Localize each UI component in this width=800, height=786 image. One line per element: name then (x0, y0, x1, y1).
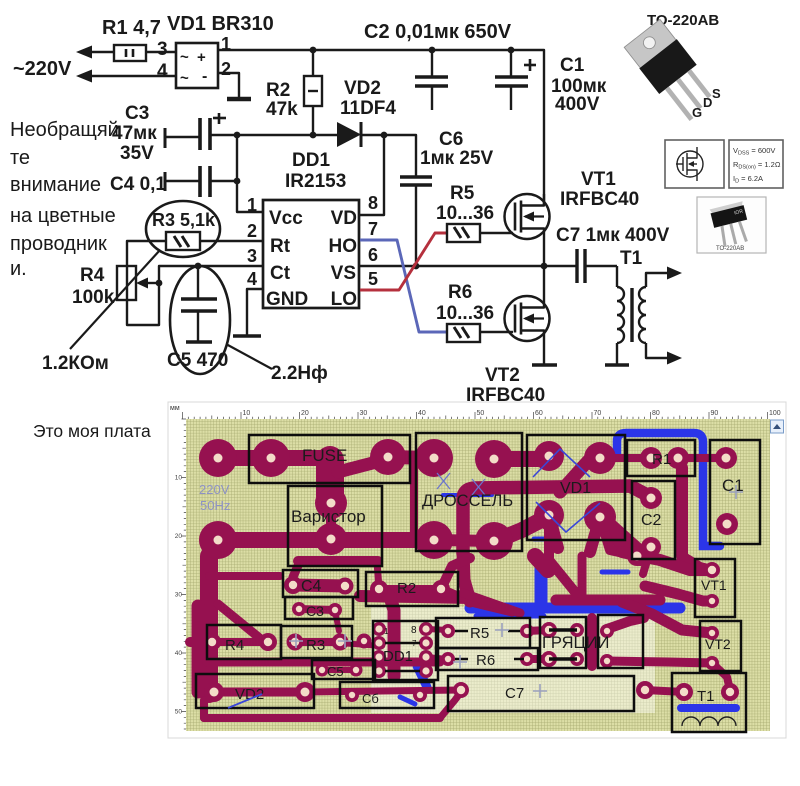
svg-text:R6: R6 (476, 652, 495, 669)
wire trace C5 pads (322, 667, 356, 673)
wire R5 to VT1 gate (480, 232, 513, 234)
svg-text:1: 1 (384, 627, 389, 636)
pad fuse 1 (252, 439, 290, 477)
wire blue left bits (193, 626, 200, 640)
svg-text:~: ~ (180, 49, 189, 66)
pad C2 a (640, 487, 662, 509)
svg-text:20: 20 (175, 533, 183, 540)
wire trace VD1 bottom-right mass (600, 520, 640, 556)
ruler top (183, 412, 768, 419)
ground pin4 (233, 334, 261, 338)
pad R3 b (332, 634, 349, 651)
pad R3 c (357, 634, 372, 649)
silk blue VD1 chevrons (533, 449, 590, 477)
svg-text:47k: 47k (266, 99, 298, 120)
wire trace to VT2 lower (607, 661, 712, 663)
svg-text:C3: C3 (125, 103, 149, 124)
wire trace VD1 bottom left down (549, 515, 575, 592)
component box C2 pcb (632, 481, 675, 559)
wire trace choke to VD1 top (495, 451, 548, 467)
svg-text:3: 3 (157, 39, 168, 60)
wire trace between relay boxes (587, 618, 597, 666)
svg-text:D: D (703, 95, 712, 110)
svg-text:C6: C6 (439, 129, 463, 150)
wire trace R5 leads (426, 629, 448, 630)
svg-text:-: - (202, 68, 207, 85)
scrollbar button (771, 420, 784, 433)
pad VD1 2 (584, 442, 616, 474)
op-amp/IC DD1 IR2153 (263, 200, 359, 308)
component box R3 pcb (281, 626, 352, 658)
pad varistor top (315, 487, 347, 519)
wire blue short bar (602, 570, 628, 575)
pad choke tr (475, 440, 513, 478)
pad C7 a (453, 682, 469, 698)
svg-text:7: 7 (412, 639, 417, 648)
svg-text:C7 1мк 400V: C7 1мк 400V (556, 225, 670, 246)
svg-text:70: 70 (594, 410, 602, 417)
wire blue DD1 bits (417, 666, 427, 687)
svg-text:7: 7 (368, 219, 378, 239)
pad relay 2 (570, 623, 584, 637)
wire trace VD1 to R1 (600, 454, 651, 462)
node R2 bottom (310, 132, 317, 139)
wire trace VT2 to T1 (712, 663, 730, 690)
svg-text:Сб: Сб (362, 691, 379, 706)
svg-text:мм: мм (170, 405, 180, 412)
ellipse callout around C5 (170, 266, 230, 374)
svg-text:проводник: проводник (10, 233, 107, 255)
svg-text:1.2КОм: 1.2КОм (42, 353, 109, 374)
svg-text:S: S (712, 86, 721, 101)
svg-text:20: 20 (301, 410, 309, 417)
wire trace fuse row (218, 450, 322, 466)
wire VB node (384, 135, 416, 176)
svg-text:R6: R6 (448, 282, 472, 303)
capacitor C3 (164, 128, 167, 148)
svg-text:R5: R5 (450, 183, 475, 204)
resistor R5 (447, 224, 480, 242)
svg-text:11DF4: 11DF4 (340, 98, 396, 119)
svg-text:IRFBC40: IRFBC40 (560, 189, 639, 210)
component box C4 pcb (283, 570, 358, 597)
transformer T1 secondary (639, 287, 646, 343)
node C6/VS (413, 263, 420, 270)
pad VD1 3 (534, 500, 564, 530)
pad VD1 1 (534, 441, 564, 471)
PCB grid background (186, 419, 770, 731)
wire trace R2 (379, 585, 441, 593)
transformer T1 primary (616, 266, 618, 287)
pad C4 b (337, 578, 354, 595)
pad VT1 b (705, 594, 719, 608)
pad C2 b (641, 537, 661, 557)
svg-text:C7: C7 (505, 685, 524, 702)
svg-text:DD1: DD1 (292, 150, 330, 171)
svg-text:40: 40 (418, 410, 426, 417)
svg-text:30: 30 (175, 592, 183, 599)
svg-text:50: 50 (477, 410, 485, 417)
wire top rail (+310V) (218, 50, 544, 205)
node VD2 cathode (381, 132, 388, 139)
svg-text:R4: R4 (225, 637, 244, 654)
component box T1 pcb (672, 673, 746, 732)
input arrow top (76, 46, 92, 59)
svg-text:T1: T1 (620, 248, 643, 269)
pad C1 a (715, 447, 737, 469)
selection highlight region (371, 607, 655, 713)
wire R3 left / R4 branch (127, 241, 263, 325)
wire trace to VT2 (622, 602, 712, 633)
wire trace VD1 diagonal (560, 461, 588, 492)
svg-text:VD2: VD2 (344, 78, 381, 99)
ground (227, 97, 251, 102)
wire trace R1 to C1 (678, 454, 726, 462)
svg-text:8: 8 (368, 193, 378, 213)
svg-text:R2: R2 (266, 80, 290, 101)
pad R1 a (640, 447, 662, 469)
svg-text:VD1: VD1 (560, 480, 591, 497)
wire trace C7 to T1 (645, 690, 684, 692)
component box VT2 pcb (700, 621, 741, 671)
ground T1 primary (605, 363, 629, 367)
svg-text:1: 1 (247, 195, 257, 215)
capacitor C1 (510, 50, 512, 76)
wire bridge pin2 to ground (218, 73, 239, 97)
resistor R3 (166, 232, 200, 250)
svg-text:Необращяй: Необращяй (10, 119, 119, 141)
capacitor C7 (575, 249, 578, 283)
component box C6 pcb (340, 682, 434, 708)
T1 coil silk (682, 717, 736, 726)
transformer T1 core (630, 288, 633, 342)
wire VT2 source down (543, 341, 545, 365)
svg-text:5: 5 (368, 269, 378, 289)
component box varistor (288, 486, 382, 566)
pad C5 b (350, 664, 363, 677)
svg-text:400V: 400V (555, 94, 600, 115)
svg-text:R2: R2 (397, 580, 416, 597)
wire VT1 source to VS (543, 239, 545, 266)
wire R3 to pin2 Rt (200, 240, 263, 242)
svg-text:3: 3 (247, 246, 257, 266)
wire R6 to VT2 gate (480, 331, 513, 333)
svg-text:10...36: 10...36 (436, 203, 494, 224)
svg-text:220V: 220V (199, 482, 230, 497)
svg-text:VT2: VT2 (485, 365, 520, 386)
svg-text:10: 10 (243, 410, 251, 417)
svg-text:8: 8 (411, 625, 417, 636)
pad fuse 2 (370, 439, 406, 475)
svg-text:~220V: ~220V (13, 58, 72, 80)
silk black stubs R5 R6 (455, 630, 468, 633)
wire trace choke mid vertical + cross horizontal (463, 486, 651, 553)
svg-text:100: 100 (769, 410, 781, 417)
svg-text:VT2: VT2 (705, 636, 731, 652)
node rail-C1 (508, 47, 515, 54)
silk black links relay (549, 628, 577, 632)
svg-text:T1: T1 (697, 688, 715, 705)
svg-text:6: 6 (368, 245, 378, 265)
box mosfet symbol (665, 140, 724, 188)
component box relay A (540, 617, 586, 668)
transistor VT1 (505, 194, 550, 239)
svg-text:C1: C1 (560, 55, 585, 76)
node rail-C2 (429, 47, 436, 54)
svg-text:Варистор: Варистор (291, 507, 366, 526)
ruler left (182, 419, 187, 729)
component box relay B (598, 615, 643, 668)
svg-text:10...36: 10...36 (436, 303, 494, 324)
pad C6 a (345, 688, 359, 702)
pad C6 b (413, 688, 427, 702)
wire trace middle band (360, 596, 470, 598)
svg-text:50Hz: 50Hz (200, 498, 230, 513)
bridge rectifier VD1 (176, 43, 218, 88)
pad R6 a (441, 652, 455, 666)
pad T1 a (675, 683, 693, 701)
pad relay 1 (541, 622, 557, 638)
svg-text:~: ~ (180, 70, 189, 87)
svg-text:4: 4 (247, 269, 257, 289)
svg-text:С5: С5 (327, 664, 344, 679)
wire blue T1 bar (681, 704, 736, 712)
wire trace varistor vertical (326, 503, 336, 539)
pad T1 b (721, 683, 739, 701)
resistor R1 (fusible) (114, 45, 146, 61)
pad misc (627, 546, 647, 566)
svg-text:C2 0,01мк 650V: C2 0,01мк 650V (364, 21, 512, 43)
svg-text:1мк 25V: 1мк 25V (420, 148, 494, 169)
wire input bottom (92, 75, 176, 77)
svg-text:40: 40 (175, 650, 183, 657)
svg-text:10: 10 (175, 475, 183, 482)
svg-text:Vcc: Vcc (269, 208, 303, 229)
wire Vcc rail (210, 134, 337, 136)
component box R1 pcb (627, 440, 695, 476)
wire VS line pin6 (359, 265, 577, 267)
callout line 1.2KOm (70, 250, 160, 349)
svg-text:R3 5,1k: R3 5,1k (152, 210, 216, 230)
wire trace VD2 row (214, 688, 305, 697)
pad C3 b (328, 603, 342, 617)
svg-text:VT1: VT1 (581, 169, 616, 190)
wire trace VD1 bottom right down (600, 517, 637, 556)
box specs (729, 140, 783, 188)
svg-text:Это моя плата: Это моя плата (33, 421, 151, 441)
wire blue bottom bus (470, 603, 680, 614)
wire trace left vertical column (200, 556, 218, 694)
svg-text:R3: R3 (306, 637, 325, 654)
svg-text:С5 470: С5 470 (167, 350, 228, 371)
pad VT1 a (704, 562, 720, 578)
svg-text:R4: R4 (80, 265, 105, 286)
pad R6 b (520, 652, 534, 666)
pad C1 b (716, 513, 738, 535)
pad VD2 b (295, 682, 315, 702)
svg-text:100k: 100k (72, 287, 115, 308)
pad relay 3 (600, 624, 614, 638)
svg-text:Ct: Ct (270, 263, 291, 284)
capacitor C5 (197, 266, 199, 298)
component box VD2 pcb (196, 674, 314, 708)
svg-text:90: 90 (711, 410, 719, 417)
svg-text:ДРОССЕЛЬ: ДРОССЕЛЬ (422, 492, 513, 510)
svg-text:внимание: внимание (10, 174, 101, 196)
component box R2 pcb (366, 572, 458, 606)
ellipse callout around R3 (146, 201, 220, 257)
wire pin4 GND to ground (247, 289, 263, 336)
pad fuse in (199, 439, 237, 477)
svg-text:VD: VD (331, 208, 357, 229)
svg-text:С4 0,1: С4 0,1 (110, 174, 166, 195)
wire trace to VT1 lower (643, 547, 651, 574)
svg-text:35V: 35V (120, 143, 154, 164)
component box VD1 pcb (527, 435, 625, 540)
wire trace C4 (293, 585, 345, 586)
input arrow bottom (76, 70, 92, 83)
wire secondary bottom output (646, 343, 668, 358)
transistor package photo small (697, 197, 766, 253)
svg-text:R1 4,7: R1 4,7 (102, 17, 161, 39)
node C3/Vcc (234, 132, 241, 139)
component box VT1 pcb (695, 559, 735, 617)
svg-text:VT1: VT1 (701, 577, 727, 593)
wire trace choke left outside link (410, 465, 418, 535)
callout line 2.2nF (226, 344, 272, 369)
wire input top (92, 51, 114, 53)
svg-text:80: 80 (652, 410, 660, 417)
wire blue VD1 bottom bar (534, 537, 558, 542)
wire trace long mid row (207, 658, 440, 667)
silk blue VD2 diag (228, 694, 262, 708)
ground VT2 source (532, 363, 557, 367)
pad R5 b (520, 624, 534, 638)
svg-text:VS: VS (331, 263, 356, 284)
node C4 junction (234, 178, 241, 185)
wire VB to pin 8 (359, 135, 384, 215)
pad VD2 a (204, 682, 224, 702)
pad C7 b (636, 681, 654, 699)
svg-text:30: 30 (360, 410, 368, 417)
pad R3 a (287, 634, 304, 651)
component box choke (416, 433, 522, 551)
silk black links DD1 (385, 642, 420, 645)
wire trace C3 (299, 609, 335, 610)
svg-text:C4: C4 (301, 578, 322, 595)
wire trace bottom supply row (218, 532, 434, 548)
svg-text:2: 2 (221, 59, 231, 79)
wire blue top jumper (617, 433, 720, 546)
svg-text:2.2Нф: 2.2Нф (271, 363, 328, 384)
pad R2 a (370, 580, 388, 598)
svg-text:те: те (10, 147, 30, 169)
silk gray crosses (729, 485, 743, 499)
wire C3/C4 to Vcc pin (237, 134, 263, 212)
wire trace R4 (190, 637, 212, 647)
pad C5 a (316, 664, 329, 677)
svg-text:VD1 BR310: VD1 BR310 (167, 13, 274, 35)
potentiometer R4 (117, 266, 136, 300)
wire trace to VT1 (622, 552, 712, 570)
svg-text:и.: и. (10, 258, 27, 280)
node rail-R2 (310, 47, 317, 54)
pad relay 6 (600, 654, 614, 668)
pads DD1 IC (372, 622, 386, 636)
svg-text:2: 2 (247, 221, 257, 241)
wire trace C2 right vertical (676, 468, 688, 556)
transistor VT2 (505, 296, 550, 341)
pad VD1 4 (584, 501, 616, 533)
component box C1 pcb (710, 440, 760, 544)
svg-text:+: + (197, 49, 206, 66)
node Ct/C5 (195, 263, 202, 270)
resistor R2 (312, 50, 314, 76)
svg-text:IR2153: IR2153 (285, 171, 346, 192)
resistor R6 (447, 324, 480, 342)
component box R4 pcb (207, 625, 281, 659)
wire LO red to R5 (360, 233, 447, 290)
svg-text:ГРЯЦИИ: ГРЯЦИИ (542, 634, 609, 652)
pad C3 a (292, 602, 306, 616)
svg-text:FUSE: FUSE (302, 446, 347, 465)
capacitor C4 (164, 172, 167, 191)
pad R5 a (441, 624, 455, 638)
svg-text:GND: GND (266, 289, 308, 310)
transistor package TO-220AB drawing (623, 19, 721, 126)
PCB screenshot frame (168, 402, 786, 738)
wire R1 to bridge pin3 (146, 51, 176, 53)
component box FUSE (249, 435, 410, 483)
component box R5 pcb (436, 618, 530, 648)
svg-text:DD1: DD1 (383, 648, 413, 665)
pad VT2 b (705, 656, 719, 670)
pad varistor bottom (315, 523, 347, 555)
component box C7 pcb (448, 676, 634, 711)
svg-text:TO-220AB: TO-220AB (716, 246, 744, 252)
pad choke br (475, 522, 513, 560)
svg-text:4: 4 (157, 61, 168, 82)
node wiper (156, 280, 163, 287)
node VT midpoint (541, 263, 548, 270)
wire HO blue to R6 (360, 240, 447, 332)
svg-text:60: 60 (535, 410, 543, 417)
component box C3 pcb (285, 597, 353, 619)
pad choke bl (415, 521, 453, 559)
pad relay 5 (570, 652, 584, 666)
wire blue choke label bar (443, 493, 492, 497)
svg-text:Rt: Rt (270, 236, 291, 257)
component box R6 pcb (436, 648, 538, 670)
R4 wiper arrow (146, 282, 159, 284)
wire trace bottom rail (204, 714, 440, 722)
pad C4 a (284, 576, 302, 594)
svg-text:на цветные: на цветные (10, 205, 116, 227)
component box DD1 pcb (373, 621, 438, 680)
capacitor C6 (400, 175, 432, 178)
pad R1 b (667, 447, 689, 469)
svg-text:C3: C3 (306, 603, 324, 619)
svg-text:LO: LO (331, 289, 357, 310)
diode VD2 (337, 122, 361, 147)
wire trace R6 leads (426, 657, 448, 659)
svg-text:R5: R5 (470, 625, 489, 642)
wire secondary top output (646, 273, 668, 287)
svg-text:C2: C2 (641, 512, 662, 529)
wire blue center vertical (535, 567, 548, 606)
pad R4 a (203, 633, 221, 651)
capacitor C2 (431, 50, 433, 76)
